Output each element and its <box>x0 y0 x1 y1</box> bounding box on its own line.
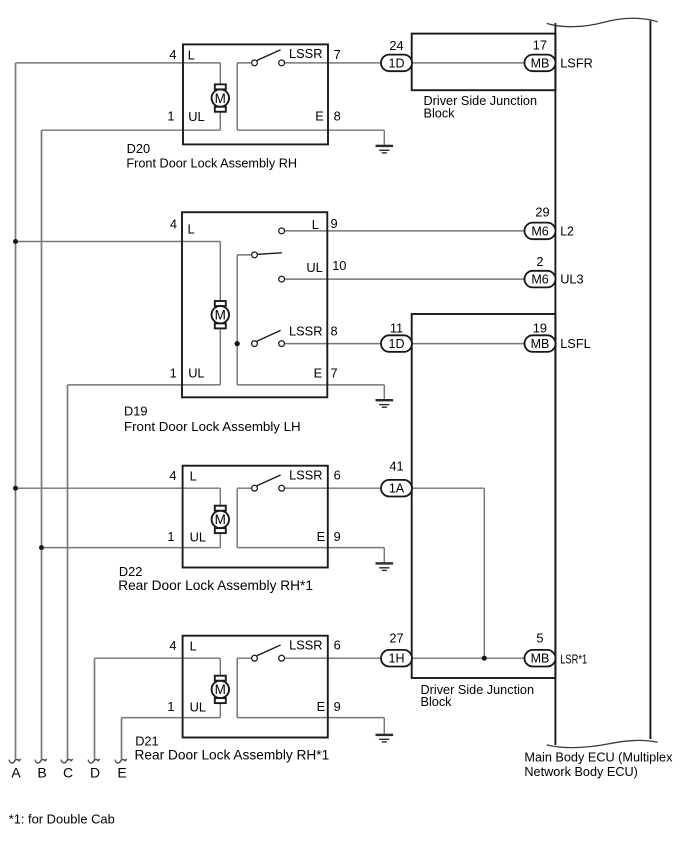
svg-text:E: E <box>117 765 126 781</box>
svg-text:8: 8 <box>334 108 341 123</box>
svg-text:MB: MB <box>531 56 550 70</box>
svg-text:4: 4 <box>169 638 176 653</box>
svg-text:LSSR: LSSR <box>289 46 322 61</box>
svg-text:10: 10 <box>332 258 346 273</box>
svg-text:UL: UL <box>188 109 204 124</box>
svg-text:D20: D20 <box>127 141 150 156</box>
svg-text:17: 17 <box>533 37 547 52</box>
svg-text:8: 8 <box>331 324 338 339</box>
svg-text:Rear Door Lock Assembly RH*1: Rear Door Lock Assembly RH*1 <box>118 578 313 593</box>
svg-text:C: C <box>63 765 73 781</box>
svg-text:UL: UL <box>190 529 206 544</box>
svg-text:Block: Block <box>421 695 453 709</box>
svg-text:UL3: UL3 <box>560 272 583 287</box>
svg-text:4: 4 <box>169 47 176 62</box>
svg-text:UL: UL <box>190 699 206 714</box>
svg-text:1D: 1D <box>389 337 405 351</box>
svg-text:M: M <box>215 91 226 106</box>
svg-text:M: M <box>215 682 226 697</box>
svg-text:Block: Block <box>424 107 456 121</box>
svg-text:27: 27 <box>389 630 403 645</box>
svg-text:Front Door Lock Assembly RH: Front Door Lock Assembly RH <box>126 156 297 170</box>
svg-text:6: 6 <box>334 637 341 652</box>
svg-text:MB: MB <box>531 652 550 666</box>
svg-text:M6: M6 <box>531 224 548 238</box>
svg-text:5: 5 <box>536 630 543 645</box>
svg-text:UL: UL <box>188 365 204 380</box>
svg-text:M: M <box>215 308 226 323</box>
svg-text:L: L <box>190 469 197 484</box>
svg-text:A: A <box>11 765 21 781</box>
svg-text:LSFR: LSFR <box>560 56 593 71</box>
svg-text:E: E <box>314 365 323 380</box>
svg-text:11: 11 <box>390 320 403 335</box>
svg-text:Front Door Lock Assembly LH: Front Door Lock Assembly LH <box>124 419 301 434</box>
svg-text:1H: 1H <box>389 652 405 666</box>
svg-text:LSSR: LSSR <box>289 637 322 652</box>
svg-text:D: D <box>90 765 100 781</box>
svg-text:2: 2 <box>536 254 543 269</box>
svg-text:41: 41 <box>389 459 403 474</box>
svg-text:D19: D19 <box>124 404 147 419</box>
svg-text:UL: UL <box>306 260 322 275</box>
svg-text:E: E <box>317 699 326 714</box>
svg-text:19: 19 <box>533 320 547 335</box>
svg-text:E: E <box>317 529 326 544</box>
svg-text:9: 9 <box>331 216 338 231</box>
svg-text:L: L <box>312 217 319 232</box>
svg-text:Rear Door Lock Assembly RH*1: Rear Door Lock Assembly RH*1 <box>135 748 330 763</box>
svg-text:LSSR: LSSR <box>289 467 322 482</box>
svg-text:1: 1 <box>167 699 174 714</box>
svg-text:D22: D22 <box>119 564 142 579</box>
svg-text:24: 24 <box>389 38 403 53</box>
svg-text:M6: M6 <box>531 273 548 287</box>
svg-text:4: 4 <box>169 468 176 483</box>
svg-text:9: 9 <box>334 529 341 544</box>
svg-text:M: M <box>215 512 226 527</box>
svg-text:L: L <box>188 222 195 237</box>
svg-text:7: 7 <box>331 365 338 380</box>
svg-text:E: E <box>315 108 324 123</box>
svg-text:6: 6 <box>334 467 341 482</box>
svg-text:29: 29 <box>535 205 549 220</box>
svg-text:D21: D21 <box>135 733 158 748</box>
svg-text:LSR*1: LSR*1 <box>560 651 587 666</box>
svg-text:LSFL: LSFL <box>560 336 591 351</box>
svg-text:LSSR: LSSR <box>289 324 322 339</box>
svg-text:1D: 1D <box>389 56 405 70</box>
svg-text:L: L <box>188 48 195 63</box>
svg-text:1: 1 <box>167 109 174 124</box>
svg-text:1A: 1A <box>389 482 405 496</box>
svg-text:*1: for Double Cab: *1: for Double Cab <box>9 811 115 826</box>
svg-text:L: L <box>190 639 197 654</box>
svg-text:9: 9 <box>334 699 341 714</box>
svg-text:B: B <box>37 765 46 781</box>
svg-text:1: 1 <box>170 365 177 380</box>
svg-text:Network Body ECU): Network Body ECU) <box>524 765 638 779</box>
svg-text:Main Body ECU (Multiplex: Main Body ECU (Multiplex <box>524 750 673 764</box>
svg-text:4: 4 <box>170 217 177 232</box>
svg-text:7: 7 <box>334 47 341 62</box>
svg-text:L2: L2 <box>560 224 574 239</box>
svg-text:1: 1 <box>167 529 174 544</box>
svg-text:MB: MB <box>531 337 550 351</box>
